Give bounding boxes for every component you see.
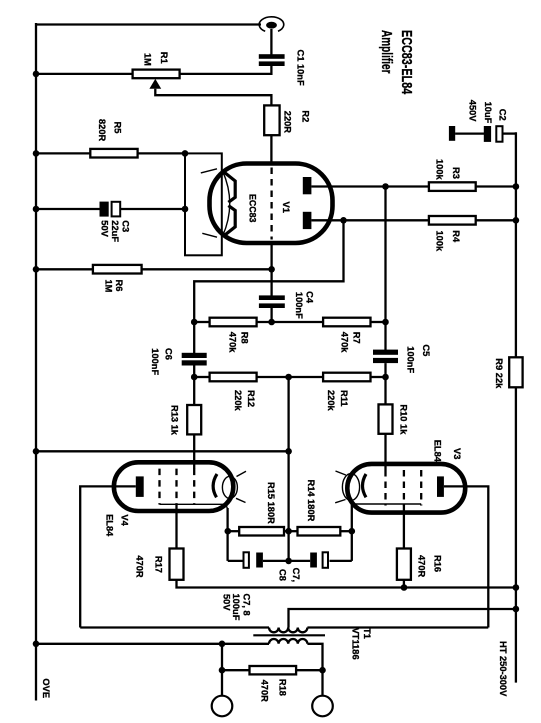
- label 0V: [41, 678, 51, 698]
- node rail-HTfeed: [513, 606, 520, 613]
- svg-text:T1: T1: [362, 628, 372, 639]
- wire V1 anode2 to R4: [311, 219, 428, 221]
- label R7: [340, 332, 362, 354]
- label ECC83: [248, 194, 258, 222]
- node rail-R6: [33, 266, 40, 273]
- node bus2 left: [191, 374, 198, 381]
- label V4: [105, 514, 130, 537]
- wire bus2 to R10: [384, 377, 386, 404]
- svg-text:100uF: 100uF: [231, 594, 241, 621]
- capacitor C2 end bar: [449, 126, 455, 141]
- label R3: [435, 159, 462, 181]
- wire V1 grid to node A: [270, 241, 272, 296]
- svg-text:10uF: 10uF: [483, 102, 493, 124]
- wire ground return: [36, 450, 289, 452]
- wire C1 to R1: [180, 66, 272, 74]
- wire bus2 left seg: [194, 376, 209, 378]
- svg-text:V3: V3: [452, 448, 462, 459]
- wire R15 left lead: [228, 530, 239, 532]
- svg-text:R10 1k: R10 1k: [399, 404, 409, 435]
- wire R17 to HT line: [177, 580, 516, 588]
- label R17: [135, 555, 164, 578]
- wire rail to C3: [36, 208, 100, 210]
- wire V3 screen to R16: [403, 505, 405, 549]
- svg-text:R18: R18: [278, 679, 288, 696]
- node anode2 junction: [340, 217, 347, 224]
- label R18: [260, 679, 288, 702]
- svg-text:V4: V4: [120, 514, 130, 526]
- node cathode-R15: [225, 528, 232, 535]
- node out-left: [219, 641, 226, 648]
- wire 0V line: [36, 643, 269, 645]
- wire V1 cathode loop box: [185, 153, 222, 255]
- wire V1 anode1 to R3: [311, 185, 428, 187]
- svg-text:C5: C5: [421, 344, 431, 356]
- svg-text:C6: C6: [164, 348, 174, 360]
- label R10: [399, 404, 409, 435]
- node rail-R1: [33, 71, 40, 78]
- wire R2 to V1 grid: [270, 135, 272, 165]
- svg-text:100nF: 100nF: [150, 348, 160, 375]
- svg-text:470R: 470R: [135, 555, 145, 578]
- tube V3 heater: [335, 471, 359, 503]
- node anode1 junction: [382, 183, 389, 190]
- svg-text:R13 1k: R13 1k: [170, 405, 180, 436]
- label R2: [283, 110, 311, 133]
- node cathodeV3-R14: [349, 528, 356, 535]
- wire R15 right lead: [284, 530, 289, 532]
- resistor R9: [509, 357, 522, 387]
- svg-text:220k: 220k: [233, 390, 243, 412]
- svg-text:R6: R6: [114, 280, 124, 292]
- label HT: [498, 641, 508, 697]
- wire bus1 left: [194, 321, 209, 323]
- wire R16 to HT line: [403, 580, 405, 588]
- svg-text:C1 10nF: C1 10nF: [296, 50, 306, 86]
- svg-text:C2: C2: [497, 109, 507, 121]
- wire anode2 jog to left bus: [194, 220, 343, 322]
- resistor R12: [210, 373, 257, 382]
- label R5: [97, 119, 123, 142]
- wire out left down: [221, 644, 223, 696]
- resistor R17: [170, 549, 184, 580]
- node bus2 centre: [285, 374, 292, 381]
- capacitor C1: [259, 54, 285, 66]
- node rail-R3: [513, 183, 520, 190]
- label V3: [433, 440, 463, 463]
- svg-text:EL84: EL84: [433, 440, 443, 463]
- wire R3 to rail: [476, 185, 516, 187]
- label T1: [351, 628, 373, 660]
- input jack J1: [259, 17, 284, 32]
- capacitor C7 plus plate: [256, 553, 263, 568]
- tube V1 envelope: [210, 164, 333, 244]
- label R4: [435, 230, 462, 252]
- resistor R8: [210, 318, 257, 327]
- wire R18 left lead: [222, 669, 250, 671]
- svg-text:Amplifier: Amplifier: [378, 30, 395, 74]
- capacitor C3 plate: [112, 202, 121, 217]
- wire HT centre tap feed: [289, 609, 516, 628]
- svg-text:470k: 470k: [228, 332, 238, 354]
- wire rail to R6: [36, 268, 93, 270]
- node rail-0V: [33, 641, 40, 648]
- node rail-R4: [513, 217, 520, 224]
- node rail-HTline: [513, 584, 520, 591]
- tube V4 envelope: [114, 462, 233, 511]
- node R18 right: [319, 667, 326, 674]
- svg-text:R7: R7: [352, 332, 362, 344]
- tube V4 grid dashes: [160, 469, 195, 505]
- wire R5 to box: [138, 152, 185, 154]
- wire rail to R5: [36, 152, 90, 154]
- svg-text:100k: 100k: [435, 159, 445, 181]
- tube V3 grid dashes: [386, 470, 422, 506]
- tube V1 anode 1 bar: [303, 177, 312, 194]
- wire C2 left lead: [455, 132, 484, 134]
- resistor R5: [90, 149, 137, 158]
- wire centre chain: [287, 377, 289, 561]
- wire bus2 right seg: [371, 376, 386, 378]
- resistor R4: [429, 216, 476, 225]
- node C4-bus1: [268, 319, 275, 326]
- svg-text:ECC83: ECC83: [248, 194, 258, 222]
- svg-text:R9 22k: R9 22k: [494, 358, 504, 389]
- svg-text:VT1186: VT1186: [351, 628, 361, 660]
- node bus2 right: [382, 374, 389, 381]
- svg-text:C3: C3: [121, 220, 131, 232]
- wire C4 to bus1: [270, 308, 272, 322]
- wire HT right rail: [515, 132, 517, 682]
- svg-text:C4: C4: [305, 291, 315, 304]
- svg-text:R1: R1: [159, 52, 169, 64]
- resistor R10: [379, 404, 393, 433]
- wire bus2 to R13: [193, 377, 195, 405]
- node centre-C7C8: [285, 558, 292, 565]
- node centre-ground: [285, 448, 292, 455]
- label C5: [406, 344, 432, 373]
- label R12: [233, 390, 256, 412]
- capacitor C8 plate: [323, 552, 328, 568]
- wire C8 right lead: [330, 560, 352, 562]
- svg-text:220R: 220R: [283, 111, 293, 134]
- label C6: [150, 348, 174, 375]
- svg-text:EL84: EL84: [105, 514, 115, 537]
- svg-text:100nF: 100nF: [294, 292, 304, 319]
- label C2: [467, 100, 507, 124]
- svg-text:C7,: C7,: [291, 568, 301, 582]
- wire jack to C1: [270, 29, 272, 55]
- svg-text:R8: R8: [240, 332, 250, 344]
- label R8: [228, 332, 250, 354]
- svg-text:HT 250-300V: HT 250-300V: [498, 641, 508, 697]
- tube V1 heater leads: [201, 169, 217, 237]
- svg-text:R14 180R: R14 180R: [306, 480, 316, 522]
- tube V3 anode bar: [437, 476, 444, 497]
- svg-text:R12: R12: [246, 390, 256, 407]
- wire bus1 to C6: [193, 322, 195, 353]
- svg-text:1M: 1M: [104, 280, 114, 293]
- label R6: [104, 280, 125, 293]
- output terminal left: [212, 696, 233, 717]
- capacitor C6: [182, 353, 207, 366]
- capacitor C8 plus plate: [310, 553, 317, 568]
- label R15: [266, 482, 276, 524]
- svg-text:50V: 50V: [222, 594, 232, 611]
- wire primary right: [307, 626, 488, 628]
- resistor R7: [323, 318, 370, 327]
- wire C8 left lead: [289, 560, 311, 562]
- resistor R16: [397, 549, 411, 580]
- node C3-box: [182, 206, 189, 213]
- wire 0V left rail: [35, 23, 37, 701]
- wire R10 to V3 grid: [384, 434, 386, 470]
- svg-text:R16: R16: [433, 555, 443, 572]
- node bus1 right: [382, 319, 389, 326]
- resistor R18: [250, 666, 297, 674]
- node rail-R5: [33, 150, 40, 157]
- resistor R14: [298, 527, 341, 536]
- capacitor C5: [373, 350, 398, 364]
- wire R18 right lead: [296, 669, 322, 671]
- label R11: [326, 390, 349, 412]
- wire V4 cathode down: [226, 508, 228, 561]
- wire R14 left lead: [289, 530, 298, 532]
- wire input top: [35, 23, 261, 25]
- label C3: [100, 220, 131, 242]
- wire V4 screen to R17: [175, 504, 177, 549]
- transformer T1 secondary: [269, 639, 307, 644]
- wire bus1 right: [371, 321, 386, 323]
- wire V3 anode out: [444, 486, 488, 627]
- svg-text:R11: R11: [339, 390, 349, 407]
- wire R6 to grid node: [142, 268, 272, 270]
- svg-text:R5: R5: [113, 122, 123, 134]
- capacitor C3 plus plate: [100, 202, 109, 217]
- capacitor C2 plus plate: [484, 126, 491, 142]
- resistor R13: [187, 405, 201, 434]
- node centre-R15R14: [285, 528, 292, 535]
- wire bus2 mid: [257, 376, 324, 378]
- label C7 C8 value: [222, 594, 252, 621]
- svg-text:R15 180R: R15 180R: [266, 482, 276, 524]
- svg-text:100nF: 100nF: [406, 346, 416, 373]
- node bus1 left: [191, 319, 198, 326]
- label R14: [306, 480, 316, 522]
- resistor R3: [429, 182, 476, 191]
- wire V3 cathode down: [351, 504, 353, 561]
- svg-text:470k: 470k: [340, 332, 350, 354]
- label R16: [417, 555, 443, 578]
- resistor R11: [323, 373, 370, 382]
- svg-text:R4: R4: [451, 230, 461, 243]
- wire C3 to box: [120, 208, 185, 210]
- wire V4 anode out: [80, 486, 136, 627]
- label R1: [143, 52, 170, 66]
- node R16-HTline: [401, 584, 408, 591]
- tube V3 envelope: [347, 464, 465, 513]
- svg-text:22uF: 22uF: [110, 220, 120, 242]
- output terminal right: [312, 696, 333, 717]
- wire C6 to bus2: [193, 366, 195, 378]
- capacitor C4: [259, 295, 285, 308]
- wire C7 left lead: [228, 560, 244, 562]
- tube V1 cathode brackets: [223, 171, 236, 236]
- svg-text:ECC83-EL84: ECC83-EL84: [398, 30, 415, 95]
- transformer T1 core: [253, 634, 325, 636]
- svg-text:470R: 470R: [417, 555, 427, 578]
- svg-text:100k: 100k: [435, 231, 445, 253]
- label R13: [170, 405, 180, 436]
- label C1 value: [296, 50, 306, 86]
- potentiometer R1: [133, 70, 180, 79]
- node rail-C3: [33, 206, 40, 213]
- node R18 left: [219, 667, 226, 674]
- node rail-ground return: [33, 448, 40, 455]
- wire R14 right lead: [340, 530, 352, 532]
- tube V4 cathode: [160, 474, 228, 510]
- svg-text:50V: 50V: [100, 220, 110, 237]
- svg-text:470R: 470R: [260, 680, 270, 703]
- svg-text:R17: R17: [154, 556, 164, 573]
- pot R1 wiper arrow: [149, 79, 271, 106]
- svg-text:V1: V1: [281, 202, 291, 213]
- resistor R2: [264, 105, 279, 135]
- tube V4 anode bar: [136, 476, 144, 497]
- resistor R15: [239, 527, 284, 536]
- label C4: [294, 291, 315, 319]
- tube V4 heater: [222, 471, 246, 502]
- svg-text:R2: R2: [301, 110, 311, 122]
- resistor R6: [93, 265, 142, 274]
- label V1: [281, 202, 291, 213]
- wire R13 to V4 grid: [193, 434, 195, 469]
- wire C2 to rail: [502, 132, 516, 134]
- capacitor C2 plate: [496, 126, 502, 142]
- wire C7 right lead: [263, 560, 289, 562]
- label C7 C8: [278, 568, 302, 582]
- svg-text:R3: R3: [451, 167, 461, 179]
- tube V1 grid dashed: [270, 168, 272, 240]
- svg-text:820R: 820R: [97, 119, 107, 142]
- transformer T1 primary: [269, 628, 307, 633]
- label R9: [494, 358, 504, 389]
- svg-text:OVE: OVE: [41, 678, 51, 698]
- tube V1 anode 2 bar: [303, 212, 312, 229]
- wire secondary right: [307, 644, 322, 696]
- wire rail to R1: [36, 73, 133, 75]
- node R5-box: [182, 150, 189, 157]
- capacitor C7 plate: [244, 552, 249, 568]
- node input jack ground corner: [0, 0, 1, 1]
- svg-text:450V: 450V: [467, 100, 477, 123]
- wire R4 to rail: [476, 219, 516, 221]
- wire anode1 down to C5 bus: [384, 187, 386, 323]
- wire C5 to bus2: [384, 363, 386, 377]
- label title: [378, 30, 415, 95]
- wire bus1 mid: [257, 321, 324, 323]
- svg-text:C8: C8: [278, 569, 288, 581]
- svg-text:C7, 8: C7, 8: [242, 594, 252, 616]
- svg-text:220k: 220k: [326, 390, 336, 412]
- node A grid junction: [268, 266, 275, 273]
- tube V3 cathode: [352, 474, 421, 504]
- svg-text:1M: 1M: [143, 53, 153, 66]
- wire bus1 to C5: [384, 322, 386, 350]
- wire primary left: [80, 626, 269, 628]
